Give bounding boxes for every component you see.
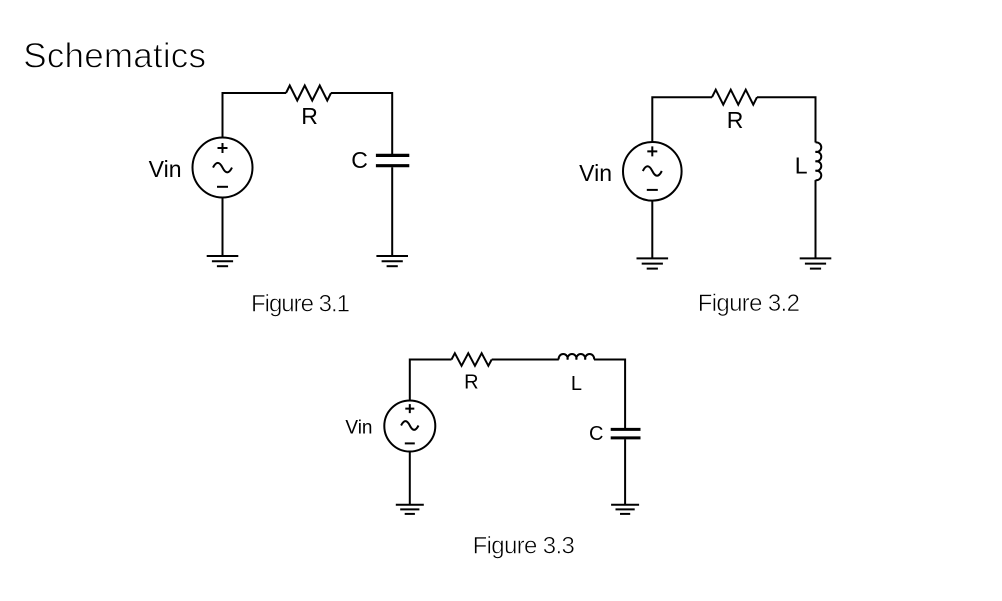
wire fig3.1 top-right horizontal xyxy=(331,93,392,154)
capacitor C (Figure 3.1) xyxy=(376,155,409,165)
svg-text:R: R xyxy=(727,107,744,133)
svg-text:C: C xyxy=(589,423,603,445)
wire fig3.2 inductor to ground xyxy=(815,180,817,258)
svg-text:Vin: Vin xyxy=(149,156,182,182)
svg-text:L: L xyxy=(795,152,808,178)
source V3 Vin (Figure 3.3) xyxy=(384,401,435,452)
svg-text:Vin: Vin xyxy=(579,160,612,186)
svg-text:R: R xyxy=(301,103,318,129)
wire fig3.3 source to ground xyxy=(409,452,411,505)
resistor R2 (Figure 3.2) xyxy=(712,90,757,105)
wire fig3.3 capacitor to ground xyxy=(624,439,626,504)
wire fig3.2 top-left horizontal xyxy=(652,97,712,142)
wire fig3.1 top-left horizontal xyxy=(223,93,287,139)
svg-text:Figure 3.2: Figure 3.2 xyxy=(698,290,800,317)
svg-text:Figure 3.3: Figure 3.3 xyxy=(473,532,575,559)
wire fig3.2 source to ground xyxy=(651,201,653,259)
wire fig3.3 top-left horizontal xyxy=(410,360,452,401)
ground (Figure 3.3 left) xyxy=(396,505,424,514)
svg-text:Schematics: Schematics xyxy=(23,36,206,75)
svg-text:C: C xyxy=(351,147,368,173)
svg-text:L: L xyxy=(571,373,582,395)
ground (Figure 3.3 right) xyxy=(611,505,639,514)
resistor R1 (Figure 3.1) xyxy=(286,86,331,101)
ground (Figure 3.2 right) xyxy=(800,258,832,268)
capacitor C (Figure 3.3) xyxy=(611,429,641,438)
resistor R3 (Figure 3.3) xyxy=(452,353,492,366)
source V1 Vin (Figure 3.1) xyxy=(193,138,253,198)
wire fig3.1 source to ground xyxy=(222,198,224,257)
svg-text:R: R xyxy=(464,372,478,394)
svg-text:Vin: Vin xyxy=(345,418,372,439)
wire fig3.2 top-right horizontal xyxy=(757,97,816,142)
wire fig3.1 capacitor to ground xyxy=(391,167,393,256)
ground (Figure 3.1 right) xyxy=(376,256,408,266)
ground (Figure 3.1 left) xyxy=(207,256,239,266)
source V2 Vin (Figure 3.2) xyxy=(623,142,682,201)
inductor L (Figure 3.3) xyxy=(559,354,594,359)
ground (Figure 3.2 left) xyxy=(637,258,669,268)
inductor L (Figure 3.2) xyxy=(816,142,822,180)
svg-text:Figure 3.1: Figure 3.1 xyxy=(251,291,350,318)
wire fig3.3 inductor to capacitor xyxy=(594,360,625,429)
wire fig3.3 resistor to inductor xyxy=(492,359,559,361)
